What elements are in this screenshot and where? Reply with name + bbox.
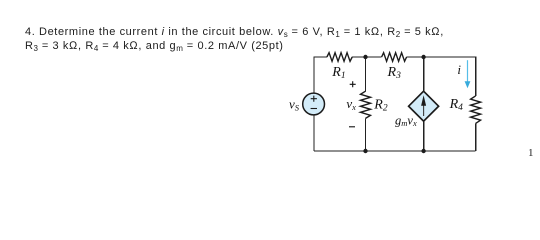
svg-text:vS: vS <box>289 97 300 113</box>
node B top junction dot <box>421 55 425 59</box>
svg-text:R1: R1 <box>331 65 345 81</box>
wire dependent source to bottom <box>423 121 425 151</box>
label vx plus sign <box>350 81 356 87</box>
wire node B down to dependent source <box>423 57 425 91</box>
svg-text:gmvx: gmvx <box>395 113 417 128</box>
label R3 <box>387 65 402 81</box>
svg-text:vx: vx <box>346 96 356 112</box>
svg-text:R3: R3 <box>387 65 402 81</box>
label vx minus sign <box>349 126 355 128</box>
problem statement text <box>25 25 444 53</box>
page number <box>528 147 534 159</box>
wire left vertical lower <box>313 115 315 151</box>
node B bottom junction dot <box>421 149 425 153</box>
wire bottom <box>314 150 476 152</box>
wire top-left to R1 and left vertical upper <box>314 57 327 93</box>
label R4 <box>449 97 464 113</box>
wire R3 to top-right corner and right vertical upper <box>407 57 476 96</box>
svg-text:R2: R2 <box>373 98 388 114</box>
label R2 <box>373 98 388 114</box>
node A bottom junction dot <box>363 149 367 153</box>
label vS <box>289 97 300 113</box>
label gm vx <box>395 113 417 128</box>
label vx <box>346 96 356 112</box>
node A top junction dot <box>363 55 367 59</box>
resistor R2 <box>361 91 371 118</box>
resistor R1 <box>327 53 352 62</box>
current arrow i <box>465 60 471 88</box>
label R1 <box>331 65 345 81</box>
resistor R4 <box>471 96 481 124</box>
resistor R3 <box>382 53 407 62</box>
voltage source vs <box>303 93 325 115</box>
wire right vertical lower <box>475 123 477 151</box>
svg-text:R4: R4 <box>449 97 464 113</box>
wire node A down to R2 <box>365 57 367 92</box>
svg-text:i: i <box>457 62 461 77</box>
label i <box>457 62 461 77</box>
dependent current source gm*vx <box>409 91 439 121</box>
wire R1 to node A <box>352 56 381 58</box>
wire R2 to bottom <box>365 118 367 151</box>
